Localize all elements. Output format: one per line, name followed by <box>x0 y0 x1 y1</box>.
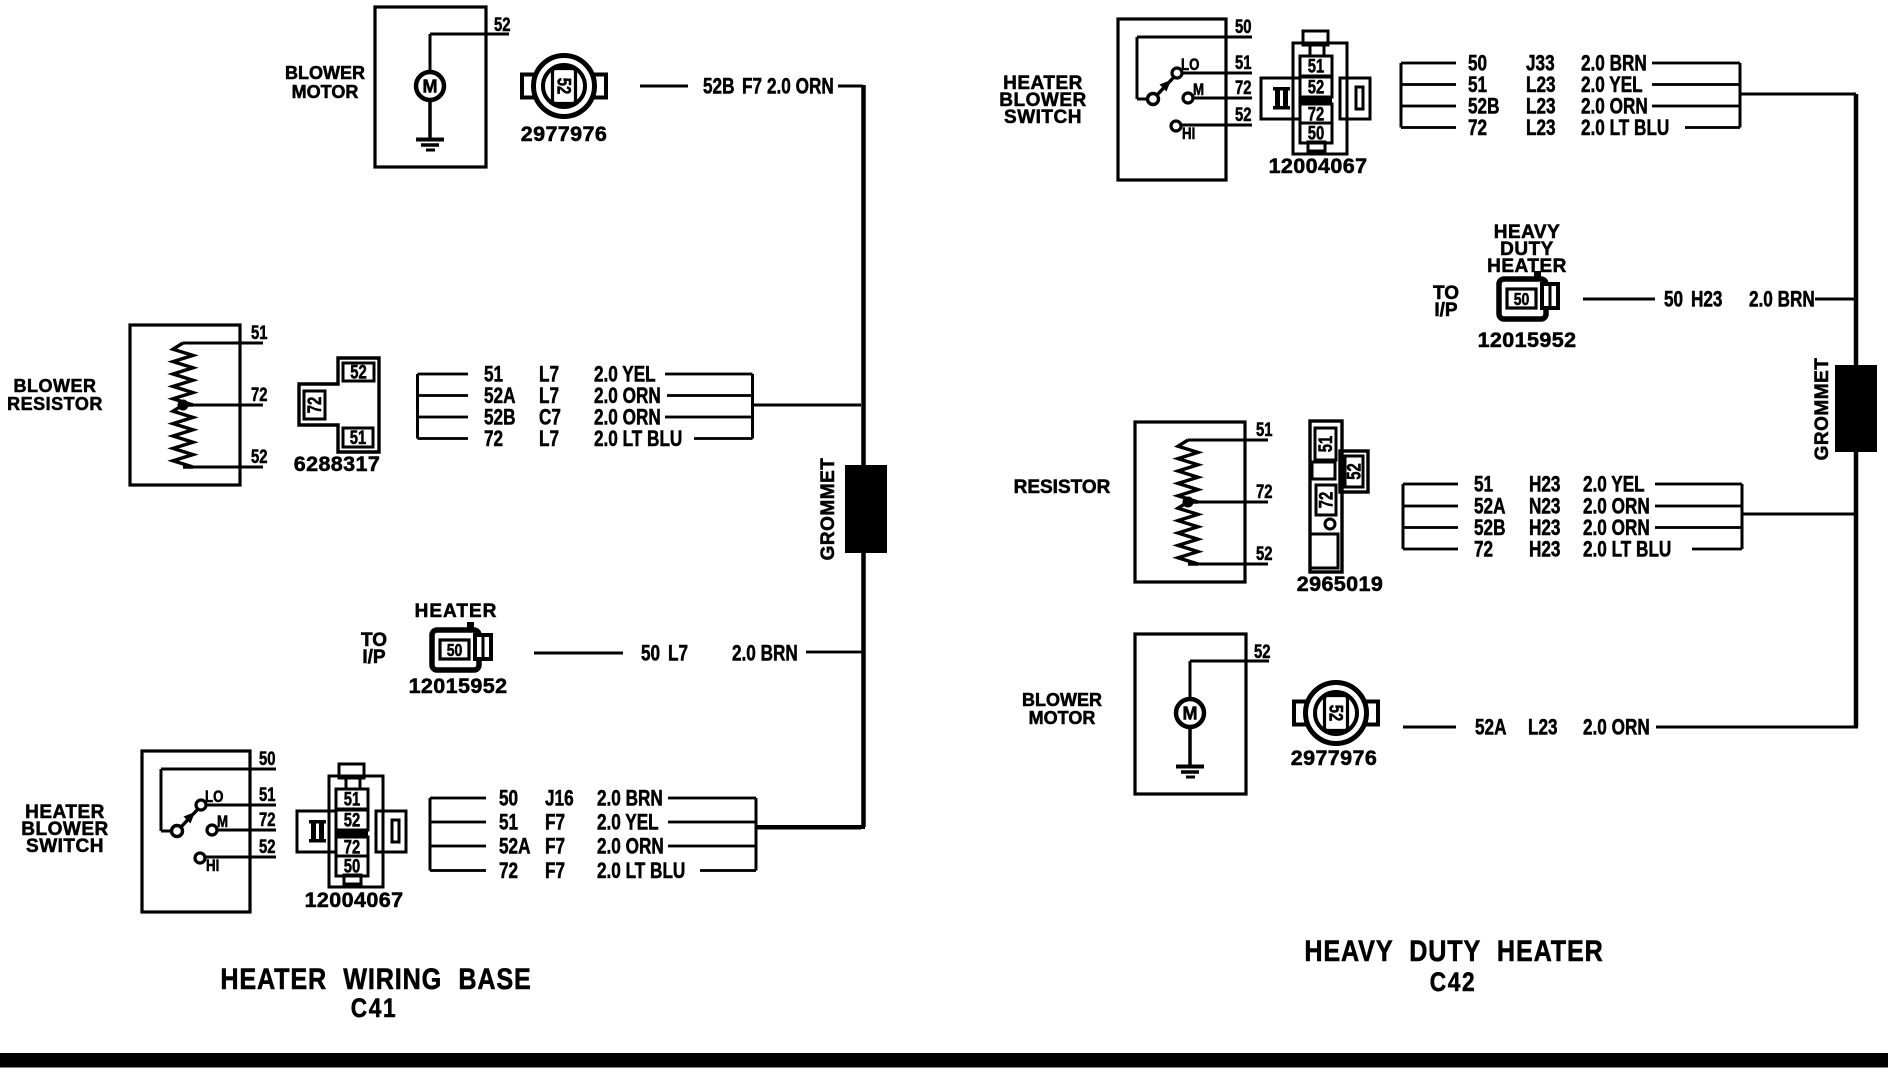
part number 12004067 (C41) <box>305 888 404 912</box>
svg-text:BLOWER: BLOWER <box>14 376 97 396</box>
blower motor C42 box <box>1135 634 1246 794</box>
connector 12015952 (C42) <box>1499 271 1558 319</box>
blower resistor C41 box <box>130 325 240 485</box>
svg-text:51: 51 <box>1256 419 1272 440</box>
switch arm with arrow of heater blower switch C42 <box>1157 77 1174 95</box>
output wire of C42 switch harness <box>1740 93 1856 96</box>
svg-text:52: 52 <box>494 14 510 35</box>
wire label 72 L7 2.0 LT BLU (C41 resistor harness) <box>484 427 682 452</box>
svg-text:H23: H23 <box>1691 288 1722 313</box>
main bus wire (C42) <box>1854 94 1859 727</box>
svg-text:C42: C42 <box>1430 967 1477 997</box>
wire segment row 1 to bracket (C41 switch harness) <box>668 797 756 800</box>
svg-text:2.0 LT BLU: 2.0 LT BLU <box>1583 538 1671 563</box>
subtitle C41 <box>351 993 398 1023</box>
svg-text:12015952: 12015952 <box>409 674 508 698</box>
svg-text:BLOWER: BLOWER <box>1022 690 1102 710</box>
svg-text:52A: 52A <box>1475 716 1506 741</box>
LO contact of heater blower switch C42 <box>1172 68 1182 78</box>
svg-text:2.0 LT BLU: 2.0 LT BLU <box>597 859 685 884</box>
ground of blower motor C41 <box>416 100 444 152</box>
wire table left bracket (C42 switch harness) <box>1400 63 1403 128</box>
svg-text:72: 72 <box>1316 492 1337 508</box>
M contact of heater blower switch C41 <box>207 825 217 835</box>
svg-text:12004067: 12004067 <box>305 888 404 912</box>
bottom tab of 12004067 (C42) <box>1308 142 1325 151</box>
svg-text:I/P: I/P <box>362 647 386 668</box>
wire label 52A F7 2.0 ORN (C41 switch harness) <box>499 835 664 860</box>
svg-text:72: 72 <box>499 859 518 884</box>
wire 72 of heater blower switch C42 <box>1193 97 1252 100</box>
pin 72 of 6288317 <box>304 397 325 413</box>
switch pivot contact of heater blower switch C42 <box>1148 94 1159 105</box>
wire label 50 L7 2.0 BRN (C41) <box>641 642 798 667</box>
svg-text:51: 51 <box>1308 56 1324 77</box>
svg-text:HEATER: HEATER <box>415 601 498 622</box>
svg-text:52: 52 <box>259 836 275 857</box>
wire label 50 J16 2.0 BRN (C41 switch harness) <box>499 787 663 812</box>
svg-text:F7: F7 <box>545 859 565 884</box>
pin label 72 of heater blower switch C41 <box>259 809 275 830</box>
svg-text:50: 50 <box>1235 16 1251 37</box>
svg-text:51: 51 <box>1235 52 1251 73</box>
svg-text:52: 52 <box>1325 705 1346 721</box>
svg-text:2.0 BRN: 2.0 BRN <box>732 642 798 667</box>
part number 2977976 (C42 blower motor connector) <box>1291 746 1378 770</box>
pin label 51 of blower resistor C41 <box>251 322 267 343</box>
wire 50 H23 2.0 BRN (C42) <box>1583 298 1655 301</box>
wire segment row 4 to bracket (C41 switch harness) <box>700 869 756 872</box>
pin 51 of 6288317 <box>350 427 366 448</box>
pin label 52 of heater blower switch C42 <box>1235 104 1251 125</box>
wire segment row 2 to bracket (C42 switch harness) <box>1652 83 1740 86</box>
svg-text:SWITCH: SWITCH <box>26 836 104 857</box>
pin 72 of 12004067 (C42) <box>1308 104 1324 125</box>
svg-text:2.0 YEL: 2.0 YEL <box>1583 473 1645 498</box>
svg-text:6288317: 6288317 <box>294 452 381 476</box>
wire label 52A N23 2.0 ORN (C42 resistor harness) <box>1474 495 1650 520</box>
svg-text:72: 72 <box>1235 77 1251 98</box>
wire table left bracket (C41 switch harness) <box>429 798 432 871</box>
wire segment row 4 to bracket (C41 resistor harness) <box>694 437 753 440</box>
svg-text:52B: 52B <box>703 75 734 100</box>
motor symbol M of blower motor C41 <box>416 72 444 100</box>
svg-text:RESISTOR: RESISTOR <box>1014 477 1111 498</box>
pin label 52 of blower resistor C41 <box>251 446 267 467</box>
svg-text:J16: J16 <box>545 787 574 812</box>
pin 50 of 12015952 (C42) <box>1514 289 1530 309</box>
svg-text:52: 52 <box>344 810 360 831</box>
svg-text:51: 51 <box>251 322 267 343</box>
part number 2965019 <box>1297 572 1384 596</box>
wire table right bracket (C41 switch harness) <box>755 798 758 871</box>
label HEATER (C41) <box>415 601 498 622</box>
main bus wire (C41) <box>757 85 866 829</box>
svg-text:2.0 LT BLU: 2.0 LT BLU <box>594 427 682 452</box>
wire stub row 4 (C41 resistor harness) <box>418 437 469 440</box>
heater blower switch C42 box <box>1118 19 1226 180</box>
svg-text:12004067: 12004067 <box>1269 154 1368 178</box>
label TO I/P (C42) <box>1433 283 1459 321</box>
svg-text:50: 50 <box>499 787 518 812</box>
HI contact of heater blower switch C42 <box>1171 121 1181 131</box>
svg-text:51: 51 <box>350 427 366 448</box>
svg-text:72: 72 <box>1474 538 1493 563</box>
terminal 52 wire of blower resistor C41 <box>183 466 263 469</box>
svg-text:GROMMET: GROMMET <box>818 458 839 561</box>
label M of heater blower switch C41 <box>217 813 228 832</box>
wire 72 of heater blower switch C41 <box>217 829 276 832</box>
wire label 52B L23 2.0 ORN (C42 switch harness) <box>1468 95 1648 120</box>
wire label 52A L23 2.0 ORN (C42) <box>1475 716 1650 741</box>
svg-text:12015952: 12015952 <box>1478 328 1577 352</box>
switch pivot contact of heater blower switch C41 <box>172 826 183 837</box>
terminal 52 wire of resistor C42 <box>1188 563 1268 566</box>
wire stub row 3 (C42 switch harness) <box>1401 105 1456 108</box>
terminal 72 wire of resistor C42 <box>1188 501 1268 504</box>
pin label 72 of resistor C42 <box>1256 481 1272 502</box>
svg-text:2.0 BRN: 2.0 BRN <box>597 787 663 812</box>
wire 52 of heater blower switch C42 <box>1181 124 1252 127</box>
part number 12015952 (C41) <box>409 674 508 698</box>
wire stub row 4 (C41 switch harness) <box>430 869 486 872</box>
svg-text:L23: L23 <box>1528 716 1558 741</box>
svg-text:MOTOR: MOTOR <box>1029 708 1096 728</box>
svg-text:MOTOR: MOTOR <box>292 82 359 102</box>
wire label 50 H23 2.0 BRN (C42) <box>1664 288 1815 313</box>
svg-text:2.0 YEL: 2.0 YEL <box>597 811 659 836</box>
svg-text:C41: C41 <box>351 993 398 1023</box>
svg-text:F7: F7 <box>545 811 565 836</box>
svg-text:HEATER WIRING BASE: HEATER WIRING BASE <box>220 962 531 996</box>
pin 50 of 12004067 (C42) <box>1308 123 1324 144</box>
part number 12004067 (C42) <box>1269 154 1368 178</box>
wire from connector 2977976 (C42) <box>1403 726 1456 729</box>
svg-text:L23: L23 <box>1526 116 1556 141</box>
connector 2965019 (C42 resistor connector) <box>1310 421 1368 572</box>
svg-text:50: 50 <box>641 642 660 667</box>
pin label 72 of blower resistor C41 <box>251 384 267 405</box>
M contact of heater blower switch C42 <box>1183 93 1193 103</box>
wire segment row 3 to bracket (C42 resistor harness) <box>1655 526 1742 529</box>
title HEAVY DUTY HEATER <box>1304 934 1603 968</box>
wire 51 of heater blower switch C42 <box>1182 72 1252 75</box>
wire segment row 2 to bracket (C42 resistor harness) <box>1655 505 1742 508</box>
connector 12015952 (C41) <box>432 622 491 670</box>
svg-text:HI: HI <box>1182 125 1195 144</box>
wire segment row 3 to bracket (C41 resistor harness) <box>665 416 753 419</box>
pin 72 of 2965019 <box>1316 492 1337 508</box>
wire 52 of heater blower switch C41 <box>205 856 276 859</box>
wire stub row 1 (C41 switch harness) <box>430 797 486 800</box>
svg-text:52A: 52A <box>499 835 530 860</box>
bottom tab of 12004067 (C41) <box>344 875 361 884</box>
wire stub row 3 (C41 switch harness) <box>430 845 486 848</box>
wire label 50 J33 2.0 BRN (C42 switch harness) <box>1468 52 1647 77</box>
svg-text:2977976: 2977976 <box>521 122 608 146</box>
connector 6288317 (C41 resistor connector) <box>299 358 379 452</box>
pin 52 of 2965019 <box>1344 463 1365 479</box>
label HI of heater blower switch C42 <box>1182 125 1195 144</box>
pin 51 of 12004067 (C41) <box>344 789 360 810</box>
pin label 50 of heater blower switch C41 <box>259 748 275 769</box>
wire label 51 L23 2.0 YEL (C42 switch harness) <box>1468 73 1643 98</box>
svg-text:HEAVY DUTY HEATER: HEAVY DUTY HEATER <box>1304 934 1603 968</box>
wire stub row 1 (C41 resistor harness) <box>418 373 469 376</box>
pin 50 of 12004067 (C41) <box>344 856 360 877</box>
label BLOWER MOTOR (C41) <box>285 63 365 102</box>
svg-text:H23: H23 <box>1529 538 1560 563</box>
wire table right bracket (C41 resistor harness) <box>751 374 754 439</box>
subtitle C42 <box>1430 967 1477 997</box>
pin label 52 of heater blower switch C41 <box>259 836 275 857</box>
wire label 52B H23 2.0 ORN (C42 resistor harness) <box>1474 516 1650 541</box>
wire label 72 L23 2.0 LT BLU (C42 switch harness) <box>1468 116 1669 141</box>
svg-text:52: 52 <box>1344 463 1365 479</box>
wire segment row 3 to bracket (C41 switch harness) <box>668 845 756 848</box>
wire label 72 H23 2.0 LT BLU (C42 resistor harness) <box>1474 538 1671 563</box>
svg-text:BLOWER: BLOWER <box>285 63 365 83</box>
wire label 52A L7 2.0 ORN (C41 resistor harness) <box>484 384 661 409</box>
wire 50 (L-shaped) of heater blower switch C42 <box>1136 36 1253 101</box>
label HEAVY DUTY HEATER (C42) <box>1487 222 1567 277</box>
part number 6288317 <box>294 452 381 476</box>
label M of heater blower switch C42 <box>1193 81 1204 100</box>
wire stub row 4 (C42 resistor harness) <box>1403 548 1458 551</box>
title HEATER WIRING BASE <box>220 962 531 996</box>
connector 12004067 (C42) <box>1261 31 1370 154</box>
svg-text:HEATER: HEATER <box>1487 256 1567 277</box>
wire label 52B C7 2.0 ORN (C41 resistor harness) <box>484 406 661 431</box>
svg-text:RESISTOR: RESISTOR <box>7 394 103 414</box>
part number 2977976 (C41 blower motor connector) <box>521 122 608 146</box>
wire segment row 1 to bracket (C42 resistor harness) <box>1655 483 1742 486</box>
pin 50 of 12015952 (C41) <box>447 640 463 660</box>
pin 72 of 12004067 (C41) <box>344 837 360 858</box>
svg-text:L7: L7 <box>539 427 559 452</box>
svg-text:72: 72 <box>484 427 503 452</box>
wire label 52B F7 2.0 ORN (C41) <box>703 75 834 100</box>
pin 52 of 12004067 (C41) <box>344 810 360 831</box>
svg-text:51: 51 <box>344 789 360 810</box>
wire label 51 H23 2.0 YEL (C42 resistor harness) <box>1474 473 1645 498</box>
connector 12004067 (C41) <box>297 764 406 887</box>
grommet (C42) <box>1835 365 1877 452</box>
wire table right bracket (C42 switch harness) <box>1739 63 1742 128</box>
svg-text:51: 51 <box>1315 436 1336 452</box>
wire label 51 L7 2.0 YEL (C41 resistor harness) <box>484 363 656 388</box>
label BLOWER RESISTOR (C41) <box>7 376 103 414</box>
svg-text:L7: L7 <box>668 642 688 667</box>
svg-text:HI: HI <box>206 857 219 876</box>
ground of blower motor C42 <box>1176 727 1204 779</box>
label BLOWER MOTOR (C42) <box>1022 690 1102 728</box>
pin label 52 of resistor C42 <box>1256 543 1272 564</box>
grommet (C41) <box>845 465 887 553</box>
svg-text:51: 51 <box>499 811 518 836</box>
svg-text:F7: F7 <box>545 835 565 860</box>
resistor C42 box <box>1135 422 1245 582</box>
wire segment row 2 to bracket (C41 switch harness) <box>668 821 756 824</box>
wire table left bracket (C41 resistor harness) <box>416 374 419 439</box>
resistor element of blower resistor C41 <box>173 343 193 467</box>
svg-text:50: 50 <box>259 748 275 769</box>
label HEATER BLOWER SWITCH (C41) <box>21 802 108 857</box>
label HEATER BLOWER SWITCH (C42) <box>999 73 1086 128</box>
svg-text:72: 72 <box>259 809 275 830</box>
svg-text:50: 50 <box>447 640 463 660</box>
label HI of heater blower switch C41 <box>206 857 219 876</box>
wire stub row 2 (C41 switch harness) <box>430 821 486 824</box>
motor symbol M of blower motor C42 <box>1176 699 1204 727</box>
label TO I/P (C41) <box>361 630 387 668</box>
svg-text:52: 52 <box>1235 104 1251 125</box>
svg-text:50: 50 <box>1664 288 1683 313</box>
wire stub row 3 (C41 resistor harness) <box>418 416 469 419</box>
svg-text:50: 50 <box>1514 289 1530 309</box>
heater blower switch C41 box <box>142 751 250 912</box>
svg-text:52: 52 <box>1256 543 1272 564</box>
wire 51 of heater blower switch C41 <box>206 804 276 807</box>
wire 50 (L-shaped) of heater blower switch C41 <box>160 768 277 833</box>
label RESISTOR (C42) <box>1014 477 1111 498</box>
svg-text:72: 72 <box>251 384 267 405</box>
svg-text:M: M <box>1183 704 1198 724</box>
svg-text:52: 52 <box>553 78 574 94</box>
pin label 51 of resistor C42 <box>1256 419 1272 440</box>
wire 52A to bus (C42) <box>1656 726 1858 729</box>
pin label 52 of blower motor C41 <box>494 14 510 35</box>
wire stub row 4 (C42 switch harness) <box>1401 126 1456 129</box>
wire segment row 4 to bracket (C42 resistor harness) <box>1692 548 1742 551</box>
connector 2977976 (C41 blower motor connector) <box>522 56 606 117</box>
wire table right bracket (C42 resistor harness) <box>1741 484 1744 549</box>
blower motor C41 box <box>375 7 486 167</box>
wire 50 L7 2.0 BRN (C41) <box>534 652 623 655</box>
wire label 51 F7 2.0 YEL (C41 switch harness) <box>499 811 659 836</box>
svg-text:52: 52 <box>1254 641 1270 662</box>
pin label 50 of heater blower switch C42 <box>1235 16 1251 37</box>
pin label 52 of blower motor C42 <box>1254 641 1270 662</box>
wire 52B F7 2.0 ORN (C41) <box>640 85 688 88</box>
svg-text:52: 52 <box>1308 77 1324 98</box>
wire stub row 2 (C41 resistor harness) <box>418 394 469 397</box>
LO contact of heater blower switch C41 <box>196 800 206 810</box>
svg-text:52: 52 <box>350 362 366 383</box>
svg-text:2.0 ORN: 2.0 ORN <box>597 835 664 860</box>
svg-text:2.0 LT BLU: 2.0 LT BLU <box>1581 116 1669 141</box>
wire 52 inside blower motor C42 <box>1189 660 1270 700</box>
svg-text:72: 72 <box>1468 116 1487 141</box>
connector 2977976 (C42 blower motor connector) <box>1294 683 1378 744</box>
terminal 51 wire of resistor C42 <box>1188 439 1268 442</box>
pin label 51 of heater blower switch C41 <box>259 784 275 805</box>
part number 12015952 (C42) <box>1478 328 1577 352</box>
wire table left bracket (C42 resistor harness) <box>1402 484 1405 549</box>
wire stub row 2 (C42 resistor harness) <box>1403 505 1458 508</box>
svg-text:2965019: 2965019 <box>1297 572 1384 596</box>
wire stub row 1 (C42 resistor harness) <box>1403 483 1458 486</box>
wire 52 inside blower motor C41 <box>429 33 510 73</box>
svg-text:GROMMET: GROMMET <box>1812 358 1833 461</box>
wire segment row 1 to bracket (C42 switch harness) <box>1652 62 1740 65</box>
wire dash to bus (C41 heater) <box>806 651 863 654</box>
wire segment row 1 to bracket (C41 resistor harness) <box>665 373 753 376</box>
svg-text:M: M <box>423 77 438 97</box>
svg-text:I/P: I/P <box>1434 300 1458 321</box>
pin 51 of 2965019 <box>1315 436 1336 452</box>
svg-text:2977976: 2977976 <box>1291 746 1378 770</box>
pin 52 of 12004067 (C42) <box>1308 77 1324 98</box>
pin 51 of 12004067 (C42) <box>1308 56 1324 77</box>
label LO of heater blower switch C41 <box>205 788 224 807</box>
wire label 72 F7 2.0 LT BLU (C41 switch harness) <box>499 859 685 884</box>
output wire of C41 resistor harness <box>753 404 862 407</box>
bottom black bar <box>0 1053 1888 1068</box>
wire dash to bus (C41 top) <box>838 85 863 88</box>
svg-text:72: 72 <box>304 397 325 413</box>
pin label 72 of heater blower switch C42 <box>1235 77 1251 98</box>
svg-text:2.0 ORN: 2.0 ORN <box>767 75 834 100</box>
label GROMMET (C42) <box>1812 358 1833 461</box>
wire stub row 2 (C42 switch harness) <box>1401 83 1456 86</box>
svg-text:H23: H23 <box>1529 473 1560 498</box>
svg-text:2.0 BRN: 2.0 BRN <box>1749 288 1815 313</box>
wire stub row 3 (C42 resistor harness) <box>1403 526 1458 529</box>
terminal 72 wire of blower resistor C41 <box>183 404 263 407</box>
wire segment row 3 to bracket (C42 switch harness) <box>1652 105 1740 108</box>
wire stub row 1 (C42 switch harness) <box>1401 62 1456 65</box>
wire segment row 2 to bracket (C41 resistor harness) <box>667 394 753 397</box>
svg-text:51: 51 <box>1474 473 1493 498</box>
resistor element of resistor C42 <box>1178 440 1198 564</box>
label LO of heater blower switch C42 <box>1181 56 1200 75</box>
output wire of C42 resistor harness <box>1742 513 1856 516</box>
switch arm with arrow of heater blower switch C41 <box>181 809 198 827</box>
wire dash to bus (C42 heater) <box>1815 298 1856 301</box>
svg-text:51: 51 <box>259 784 275 805</box>
svg-text:52: 52 <box>251 446 267 467</box>
terminal 51 wire of blower resistor C41 <box>183 342 263 345</box>
label GROMMET (C41) <box>818 458 839 561</box>
junction dot 72 of resistor C42 <box>1183 497 1194 508</box>
wire segment row 4 to bracket (C42 switch harness) <box>1685 126 1740 129</box>
pin 52 of 6288317 <box>350 362 366 383</box>
pin label 51 of heater blower switch C42 <box>1235 52 1251 73</box>
svg-text:2.0 ORN: 2.0 ORN <box>1583 716 1650 741</box>
svg-text:72: 72 <box>1256 481 1272 502</box>
junction dot 72 of blower resistor C41 <box>178 400 189 411</box>
svg-text:F7: F7 <box>742 75 762 100</box>
HI contact of heater blower switch C41 <box>195 853 205 863</box>
svg-text:SWITCH: SWITCH <box>1004 107 1082 128</box>
output wire of C41 switch harness <box>756 827 861 830</box>
